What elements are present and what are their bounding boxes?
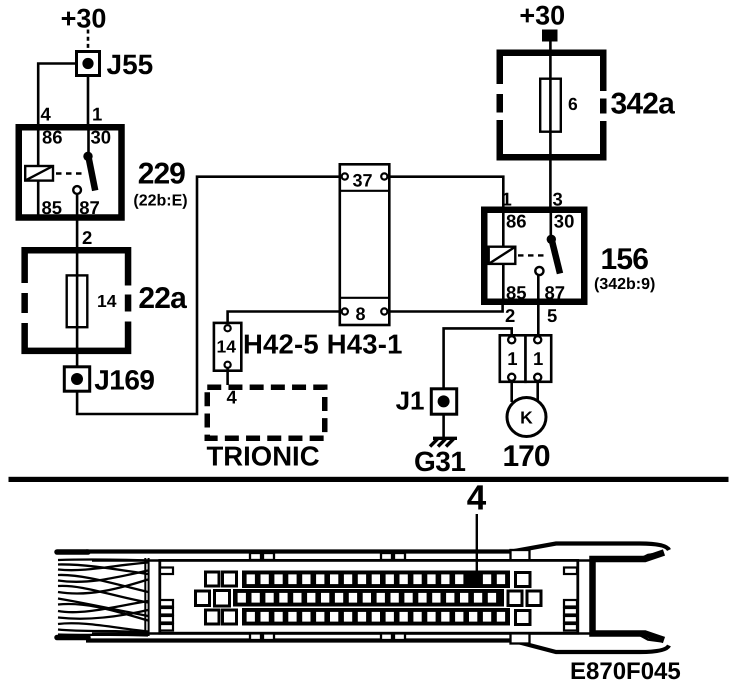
svg-text:4: 4 (227, 387, 238, 408)
connector shell outer top (57, 544, 669, 561)
junction J1 (431, 389, 456, 414)
relay 156 internal wire pin 86 to coil to pin 85 (502, 213, 505, 299)
connector shell top clips (250, 550, 530, 566)
svg-text:K: K (520, 408, 533, 428)
rear shell C-bracket (593, 553, 665, 641)
relay 156 internal wire pin 30 to switch (549, 213, 552, 237)
pin row 3 strip (242, 608, 510, 626)
pin row 1 big pins left (206, 572, 237, 586)
fuse holder 22a box (dashed sides) (20, 250, 133, 351)
svg-text:85: 85 (42, 197, 63, 218)
svg-text:86: 86 (42, 127, 63, 148)
relay 229 coil-switch dashed link (56, 172, 86, 174)
divider line (9, 477, 729, 482)
fuse 6 symbol (540, 79, 561, 132)
svg-text:170: 170 (503, 440, 550, 473)
wire dashed +30 to J55 (87, 30, 90, 52)
svg-text:+30: +30 (61, 4, 107, 34)
svg-text:+30: +30 (519, 1, 565, 31)
pin row 1 strip (pin 4 highlighted) (242, 571, 510, 589)
svg-text:30: 30 (554, 211, 575, 232)
relay 229 switch (73, 152, 95, 194)
svg-text:14: 14 (217, 337, 237, 357)
svg-text:4: 4 (41, 104, 52, 125)
connector H42-5 (214, 323, 241, 371)
svg-text:342a: 342a (611, 88, 676, 121)
svg-text:229: 229 (138, 158, 185, 191)
relay 229 internal wire pin 30 to switch (87, 130, 90, 154)
svg-text:37: 37 (353, 171, 373, 191)
svg-text:H42-5 H43-1: H42-5 H43-1 (243, 329, 403, 360)
svg-text:J55: J55 (107, 49, 154, 80)
housing left zipper tabs (160, 568, 173, 631)
svg-text:E870F045: E870F045 (570, 658, 681, 685)
wires pump connector to pump motor 170 (512, 382, 538, 403)
relay K229 box (19, 127, 122, 217)
wire J1 to ground G31 (442, 414, 445, 438)
junction J55 (77, 52, 100, 76)
wire H43-1 pin 37 to relay 156 pin 1 (388, 177, 504, 210)
wire H42-5 to TRIONIC pin 4 (226, 368, 229, 385)
svg-text:J169: J169 (94, 365, 154, 396)
pin 4 leader line (476, 514, 478, 576)
wire pump connector pin 1 to J1 (444, 328, 512, 389)
connector H43-1 pin 8 circles (342, 308, 388, 314)
cable bundle strands (58, 559, 148, 635)
svg-text:1: 1 (502, 189, 512, 210)
cable bundle right edge (145, 558, 148, 636)
svg-text:(342b:9): (342b:9) (594, 276, 655, 293)
wire relay 156 pin 2 to H43-1 pin 8 (388, 302, 503, 312)
pump motor 170 (K) (507, 398, 546, 437)
connector pin housing (160, 560, 578, 633)
wire relay 156 pin 87/5 down to pump connector (537, 275, 540, 337)
svg-text:87: 87 (545, 282, 566, 303)
pin row 1 big pin right (516, 573, 531, 587)
svg-text:8: 8 (356, 304, 366, 324)
wire J55 to relay 229 pin 1 (87, 76, 90, 127)
junction J169 (64, 367, 89, 391)
pin row 3 big pin right (516, 611, 531, 625)
connector H43-1 body (340, 164, 390, 325)
svg-text:1: 1 (533, 348, 543, 369)
relay 156 coil (489, 247, 516, 264)
svg-text:1: 1 (92, 104, 102, 125)
relay 156 switch (535, 235, 560, 276)
svg-text:14: 14 (97, 291, 117, 311)
svg-text:5: 5 (547, 305, 557, 326)
ECU TRIONIC dashed box (207, 387, 325, 438)
svg-text:G31: G31 (414, 446, 465, 477)
relay 229 internal wire pin 86 to coil to pin 85 (37, 130, 40, 215)
connector H43-1 pin 37 circles (342, 173, 388, 179)
svg-text:1: 1 (507, 348, 517, 369)
wire H43-1 pin 8 to connector H42-5 pin 14 (228, 312, 342, 324)
pin row 2 strip (233, 589, 504, 607)
svg-text:87: 87 (79, 197, 100, 218)
terminal square (+30 right) (542, 30, 558, 42)
svg-text:(22b:E): (22b:E) (133, 193, 187, 210)
wire +30 to fuse 342a and through to relay 156 pin 3 (549, 41, 552, 210)
ground G31 symbol (430, 438, 457, 446)
wire J55 to relay 229 pin 4 (38, 64, 76, 128)
pin row 2 big pins left (196, 591, 230, 607)
svg-text:22a: 22a (138, 282, 187, 315)
svg-text:J1: J1 (396, 386, 425, 416)
wire relay 229 pin 87/2 down to fuse 22a and J169 (76, 194, 79, 367)
wire J169 down right up to connector H43-1 pin 37 (77, 177, 341, 414)
svg-text:30: 30 (91, 127, 112, 148)
fuse holder 342a box (dashed sides) (495, 53, 609, 158)
svg-text:4: 4 (467, 479, 487, 518)
relay 229 coil (25, 166, 53, 181)
pin row 3 big pins left (206, 610, 237, 624)
svg-text:2: 2 (505, 305, 515, 326)
connector shell outer bottom (57, 634, 669, 653)
pin row 2 big pins right (508, 591, 541, 606)
svg-text:3: 3 (553, 189, 563, 210)
fuse 14 symbol (67, 275, 88, 327)
svg-text:2: 2 (82, 227, 92, 248)
svg-text:6: 6 (568, 94, 578, 114)
svg-text:85: 85 (506, 282, 527, 303)
svg-text:156: 156 (601, 243, 649, 276)
housing right zipper tabs (564, 568, 577, 631)
relay K156 box (484, 210, 584, 302)
connector shell bottom clips (250, 628, 530, 644)
pump connector (two pin-1 cells) (500, 335, 551, 382)
svg-text:TRIONIC: TRIONIC (207, 441, 320, 472)
svg-text:86: 86 (506, 211, 527, 232)
relay 156 coil-switch dashed link (518, 254, 547, 256)
